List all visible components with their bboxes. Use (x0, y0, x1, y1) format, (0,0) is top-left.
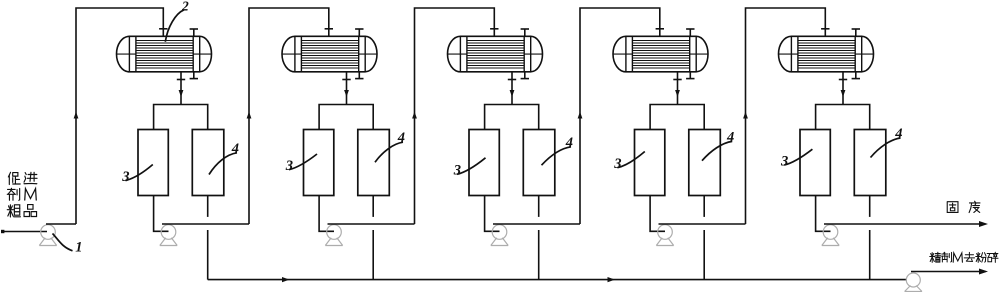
outlet flange on E1 bottom nozzle (177, 79, 185, 81)
svg-text:4: 4 (726, 129, 734, 145)
heat exchanger E5 shell (779, 36, 874, 72)
wire: column 4 outlet down to bottom header (break at crossing) (869, 196, 871, 280)
label 4 leader line (unit 2) (375, 142, 403, 162)
label 3 leader line (unit 3) (457, 158, 486, 175)
wire: manifold splitting to columns of unit 3 (485, 105, 539, 130)
wire: pump P4 discharge line (659, 223, 746, 225)
arrow down on E4 outlet pipe (675, 90, 680, 97)
heat exchanger E3 top stub nozzle with flange (521, 29, 529, 36)
label 1 leader line (53, 234, 73, 251)
pump P1 (160, 225, 177, 246)
svg-text:4: 4 (565, 135, 573, 151)
label 4 leader line (unit 4) (702, 141, 732, 160)
wire: manifold splitting to columns of unit 5 (816, 105, 870, 130)
heat exchanger E1 bottom stub nozzle with flange (190, 72, 198, 79)
heat exchanger E4 top stub nozzle with flange (686, 29, 694, 36)
arrow down on E1 outlet pipe (179, 90, 184, 97)
svg-text:3: 3 (780, 153, 788, 169)
outlet flange on E2 bottom nozzle (342, 79, 350, 81)
column 3 (left vessel) of unit 4 (635, 130, 665, 196)
wire: E1 bottom outlet pipe to manifold (180, 72, 182, 105)
heat exchanger E4 bottom stub nozzle with flange (686, 72, 694, 79)
column 4 (right vessel) of unit 1 (192, 130, 224, 196)
text: refined M to crushing label (930, 253, 935, 263)
column 3 (left vessel) of unit 5 (800, 130, 830, 196)
label 4 leader line (unit 3) (542, 147, 572, 165)
text block: crude accelerator M feed label (8, 172, 20, 184)
wire: feed pump discharge to riser of unit 1 (46, 223, 76, 225)
wire: column 3 outlet down to pump P2 (319, 196, 334, 232)
wire: column 3 outlet down to pump P5 (816, 196, 831, 232)
outlet flange on E5 bottom nozzle (839, 79, 847, 81)
column 4 (right vessel) of unit 5 (854, 130, 886, 196)
label 3 leader line (unit 2) (289, 154, 317, 170)
heat exchanger E4 shell (613, 36, 708, 72)
column 4 (right vessel) of unit 3 (523, 130, 555, 196)
pump P2 (325, 225, 342, 246)
svg-text:1: 1 (75, 240, 82, 256)
pump P5 (822, 225, 839, 246)
wire: column 3 outlet down to pump P1 (154, 196, 169, 232)
heat exchanger E3 shell (448, 36, 543, 72)
arrow on header (right) (608, 277, 616, 282)
wire: feed riser and top feed pipe into E4 (580, 8, 660, 224)
arrow on refined product line (979, 269, 988, 275)
arrow up on feed riser of unit 2 (247, 112, 252, 119)
text: solid waste label (947, 202, 958, 213)
svg-text:3: 3 (453, 163, 461, 179)
arrow down on E5 outlet pipe (841, 90, 846, 97)
arrow down on E3 outlet pipe (510, 90, 515, 97)
inlet flange on E2 top nozzle (325, 28, 333, 30)
outlet flange on E3 bottom nozzle (508, 79, 516, 81)
svg-text:4: 4 (894, 126, 902, 142)
heat exchanger E3 bottom stub nozzle with flange (521, 72, 529, 79)
inlet flange on E4 top nozzle (656, 28, 664, 30)
arrow up on feed riser of unit 3 (412, 112, 417, 119)
pump P4 (656, 225, 673, 246)
wire: bottom collection header (208, 279, 907, 281)
arrow up on feed riser of unit 5 (743, 112, 748, 119)
wire: E2 bottom outlet pipe to manifold (346, 72, 348, 105)
wire: pump P1 discharge line (162, 223, 249, 225)
heat exchanger E2 top stub nozzle with flange (355, 29, 363, 36)
wire: column 4 outlet down to bottom header (break at crossing) (703, 196, 705, 280)
svg-text:2: 2 (181, 0, 189, 14)
arrow on solid-waste line (979, 221, 988, 227)
arrow up on feed riser of unit 4 (578, 112, 583, 119)
wire: feed riser and top feed pipe into E3 (415, 8, 495, 224)
heat exchanger E1 top stub nozzle with flange (190, 29, 198, 36)
label 3 leader line (unit 1) (126, 165, 153, 181)
wire: column 4 outlet down to bottom header (break at crossing) (372, 196, 374, 280)
wire: manifold splitting to columns of unit 4 (650, 105, 704, 130)
product pump P6 (905, 273, 922, 292)
svg-text:3: 3 (121, 169, 129, 185)
inlet flange on E3 top nozzle (490, 28, 498, 30)
svg-text:4: 4 (397, 130, 405, 146)
wire: E3 bottom outlet pipe to manifold (511, 72, 513, 105)
arrow on header (left) (282, 277, 290, 282)
wire: manifold splitting to columns of unit 2 (319, 105, 373, 130)
label 3 leader line (unit 5) (784, 149, 812, 165)
column 3 (left vessel) of unit 2 (304, 130, 334, 196)
heat exchanger E2 bottom stub nozzle with flange (355, 72, 363, 79)
arrow up on feed riser of unit 1 (74, 112, 79, 119)
wire: manifold splitting to columns of unit 1 (154, 105, 208, 130)
outlet flange on E4 bottom nozzle (673, 79, 681, 81)
wire: pump P3 discharge line (493, 223, 580, 225)
wire: feed riser and top feed pipe into E1 (76, 8, 163, 224)
wire: feed riser and top feed pipe into E2 (249, 8, 329, 224)
pump P3 (491, 225, 508, 246)
label 2 leader line (165, 10, 184, 42)
wire: E5 bottom outlet pipe to manifold (842, 72, 844, 105)
feed pump 1 (39, 225, 56, 246)
wire: column 3 outlet down to pump P4 (650, 196, 665, 232)
arrow down on E2 outlet pipe (344, 90, 349, 97)
column 4 (right vessel) of unit 2 (358, 130, 390, 196)
heat exchanger E1 shell (116, 36, 211, 72)
wire: feed riser and top feed pipe into E5 (746, 8, 826, 224)
column 4 (right vessel) of unit 4 (689, 130, 721, 196)
wire: pump P2 discharge line (328, 223, 415, 225)
label 4 leader line (unit 5) (871, 138, 901, 158)
wire: E4 bottom outlet pipe to manifold (677, 72, 679, 105)
wire: column 4 outlet down to bottom header (break at crossing) (538, 196, 540, 280)
label 4 leader line (unit 1) (209, 153, 237, 175)
wire: product pump discharge line (911, 271, 986, 273)
svg-text:3: 3 (285, 158, 293, 174)
svg-text:4: 4 (231, 141, 239, 157)
heat exchanger E5 top stub nozzle with flange (852, 29, 860, 36)
wire: raw feed line from left edge (1, 230, 47, 233)
column 3 (left vessel) of unit 3 (469, 130, 499, 196)
wire: column 3 outlet down to pump P3 (485, 196, 500, 232)
svg-text:3: 3 (613, 156, 621, 172)
heat exchanger E2 shell (282, 36, 377, 72)
inlet flange on E5 top nozzle (821, 28, 829, 30)
wire: column 4 outlet down to bottom header (break at crossing) (207, 196, 209, 280)
inlet flange on E1 top nozzle (159, 28, 167, 30)
label 3 leader line (unit 4) (617, 152, 644, 168)
wire: pump P5 discharge line (824, 223, 986, 225)
column 3 (left vessel) of unit 1 (138, 130, 168, 196)
heat exchanger E5 bottom stub nozzle with flange (852, 72, 860, 79)
